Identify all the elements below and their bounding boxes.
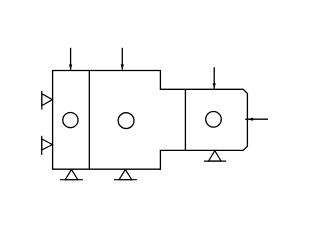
divider line — [88, 71, 90, 170]
bottom support 1 — [60, 170, 83, 180]
force arrow F4 (left) — [245, 118, 268, 121]
hole 2 — [118, 113, 134, 129]
bottom support 2 — [114, 170, 137, 180]
left support lower — [42, 136, 53, 155]
bottom support 3 — [204, 151, 226, 161]
force arrow F3 (down) — [213, 67, 216, 89]
left support upper — [42, 91, 53, 110]
force arrow F1 (down) — [69, 48, 72, 71]
body outline — [53, 71, 248, 170]
force arrow F2 (down) — [121, 48, 124, 71]
hole 1 — [63, 113, 78, 128]
hole 3 — [206, 112, 222, 128]
right block left edge — [184, 89, 186, 150]
